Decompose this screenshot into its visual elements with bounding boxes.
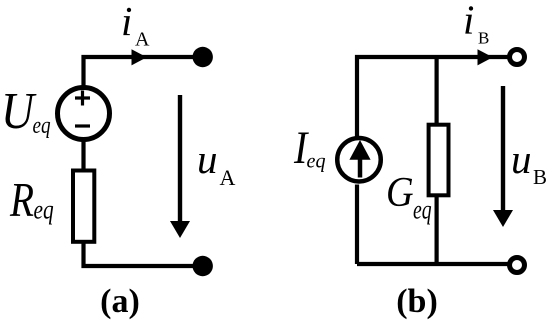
resistor R_eq [73,171,94,242]
arrow inside current source [358,156,363,178]
current source I_eq (circle with up arrow) [337,138,381,182]
current arrow i_B on top wire [478,49,493,65]
minus sign inside source [75,124,90,127]
node B top terminal (open circle) [510,50,525,65]
label u_B [511,136,532,182]
node A top terminal (solid dot) [193,47,213,67]
wire: circuit (a) top wire from source to node A [84,57,203,87]
node bottom terminal (solid dot) [193,256,213,276]
svg-text:(b): (b) [396,283,438,320]
voltage arrow u_A (pointing down) [178,95,182,224]
wire: current source to bottom wire [355,185,359,265]
label G_eq [386,168,414,215]
svg-text:B: B [533,165,547,189]
label i_A [121,0,132,44]
svg-text:eq: eq [413,195,432,225]
label U_eq [1,81,37,139]
wire: source to resistor [81,139,85,172]
svg-text:i: i [121,0,132,44]
wire: middle branch bottom [435,194,439,264]
conductance G_eq [429,125,449,196]
current arrow i_A on top wire [132,49,147,65]
svg-text:G: G [386,168,414,215]
wire: middle branch top (to conductance) [435,57,439,125]
svg-text:u: u [511,136,532,182]
svg-text:(a): (a) [100,283,140,320]
voltage source U_eq (circle with + and -) [58,88,110,140]
wire: circuit (b) bottom wire [357,262,510,266]
svg-text:u: u [197,136,218,182]
svg-text:i: i [463,0,474,42]
label u_A [197,136,218,182]
svg-text:B: B [478,29,489,48]
svg-text:A: A [135,28,150,50]
wire: circuit (a) bottom wire from resistor to node [84,241,203,266]
wire: circuit (b) top wire [357,57,508,140]
label R_eq [9,173,34,227]
svg-text:eq: eq [34,195,54,225]
svg-text:eq: eq [307,150,326,172]
voltage arrow u_B (pointing down) [501,86,505,213]
label I_eq [293,122,309,174]
svg-text:A: A [220,165,236,190]
svg-text:R: R [9,173,34,227]
plus sign inside source [75,91,90,106]
label i_B [463,0,474,42]
node B bottom terminal (open circle) [510,258,525,273]
svg-text:eq: eq [33,112,51,139]
